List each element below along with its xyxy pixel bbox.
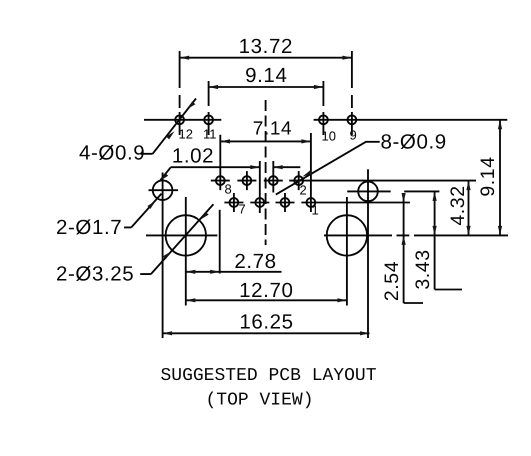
arrow dim 9.14 right top [498, 120, 502, 130]
svg-text:2.54: 2.54 [381, 261, 403, 301]
leader 8-0.9 line [276, 142, 380, 195]
svg-text:9: 9 [350, 128, 357, 143]
arrow leader 4-0.9 upper [187, 101, 195, 109]
pin 1 [307, 198, 316, 207]
dim 1.02 lines [171, 166, 300, 168]
svg-text:4-Ø0.9: 4-Ø0.9 [79, 141, 145, 164]
svg-text:2-Ø1.7: 2-Ø1.7 [56, 216, 122, 239]
pin 2 [294, 176, 303, 185]
arrow dim 2.54 top outside [402, 193, 406, 203]
arrow dim 2.78 left [186, 270, 196, 274]
arrow dim 2.54 bottom outside [402, 235, 406, 245]
pin 5 crosshair + 1.02 extension [250, 161, 269, 213]
pin 1 crosshair + 2.54 extension + 7.14 extension [301, 133, 410, 212]
leader 2-3.25 lines [140, 204, 213, 274]
dim 2.78 line [186, 271, 282, 273]
arrow dim 9.14 top left [209, 85, 219, 89]
hole 11 [204, 115, 213, 124]
arrow leader 4-0.9 lower [166, 131, 174, 139]
2.78 extension line [219, 210, 221, 274]
svg-text:2: 2 [300, 183, 307, 198]
arrow dim 2.78 right [210, 270, 220, 274]
hole 9 [348, 115, 357, 124]
dim 16.25 line [163, 332, 370, 334]
hole 2-3.25 left [166, 215, 206, 255]
svg-text:11: 11 [203, 127, 217, 142]
arrow dim 9.14 right bottom [498, 226, 502, 236]
arrow dim 13.72 right [342, 56, 352, 60]
arrow dim 1.02 left [250, 165, 259, 169]
hole 10 [319, 115, 328, 124]
svg-text:16.25: 16.25 [239, 311, 293, 334]
center axis dashed [265, 100, 267, 245]
arrow dim 3.43 bottom [433, 226, 437, 236]
pin 3 crosshair [276, 193, 295, 212]
pin 7 crosshair [224, 193, 243, 212]
svg-text:2-Ø3.25: 2-Ø3.25 [56, 263, 134, 286]
leader 2-1.7 lines [124, 167, 171, 227]
arrow leader 2-3.25 lower [163, 251, 171, 259]
dim 2.54 line with tail and landing [404, 195, 423, 304]
hole 2-1.7 right [358, 182, 378, 202]
svg-text:9.14: 9.14 [477, 156, 499, 196]
pin 8 crosshair [211, 135, 230, 190]
pin 8 [216, 176, 225, 185]
svg-text:8: 8 [225, 181, 232, 196]
svg-text:7.14: 7.14 [253, 119, 292, 140]
hole 2-1.7 left crosshair [149, 173, 179, 339]
hole 2-3.25 left crosshair [146, 197, 217, 306]
hole 11 vertical line [208, 81, 210, 135]
dim 3.43 line with tail and landing [435, 191, 462, 289]
hole 2-3.25 right crosshair [324, 197, 392, 306]
pin 6 crosshair [237, 171, 256, 190]
arrow leader 8-0.9 [303, 170, 313, 176]
hole 10 vertical line [322, 81, 324, 135]
dim 9.14 right line [499, 120, 501, 236]
svg-text:7: 7 [239, 201, 246, 216]
arrow leader 2-1.7 lower [147, 201, 155, 209]
arrow dim 16.25 right [360, 331, 370, 335]
arrow dim 9.14 top right [314, 85, 324, 89]
arrow dim 13.72 left [180, 56, 190, 60]
arrow dim 7.14 right [301, 139, 311, 143]
svg-text:(TOP VIEW): (TOP VIEW) [205, 391, 313, 411]
dim 9.14 top line [209, 86, 324, 88]
hole 2-1.7 left [153, 180, 173, 200]
3.43 extension line [404, 190, 439, 192]
arrow dim 7.14 left [221, 139, 231, 143]
pin 4 crosshair [264, 161, 283, 193]
dim 4.32 line [468, 181, 470, 236]
hole 12 [175, 115, 184, 124]
arrow dim 4.32 bottom [466, 226, 470, 236]
arrow dim 12.70 left [186, 298, 196, 302]
pin 7 [230, 198, 239, 207]
hole 2-1.7 right crosshair [347, 169, 391, 338]
hole 2-3.25 right [327, 215, 367, 255]
arrow leader 2-1.7 upper [160, 173, 168, 181]
hole 12 vertical line [179, 51, 181, 135]
top hole row centerline left [144, 119, 221, 121]
arrow dim 1.02 right [273, 165, 283, 169]
svg-text:2.78: 2.78 [234, 250, 276, 273]
svg-text:3.43: 3.43 [412, 249, 434, 289]
svg-text:4.32: 4.32 [447, 185, 469, 225]
svg-text:12.70: 12.70 [239, 279, 293, 302]
big hole baseline right dashes [397, 234, 509, 236]
arrow leader 2-3.25 upper [200, 212, 208, 220]
arrow dim 12.70 right [337, 298, 347, 302]
arrow dim 4.32 top [466, 181, 470, 191]
svg-text:13.72: 13.72 [239, 35, 293, 58]
dim 7.14 line [221, 140, 311, 142]
pin 6 [243, 176, 252, 185]
hole 9 vertical line [351, 51, 353, 135]
svg-text:1: 1 [312, 203, 319, 218]
arrow dim 16.25 left [163, 331, 173, 335]
svg-text:8-Ø0.9: 8-Ø0.9 [381, 131, 447, 154]
pin 4 [269, 176, 278, 185]
svg-text:12: 12 [179, 126, 193, 141]
dim 13.72 line [180, 57, 352, 59]
svg-text:9.14: 9.14 [245, 64, 287, 87]
leader 4-0.9 lines [141, 99, 197, 154]
dim 12.70 line [186, 299, 347, 301]
pin 5 [255, 198, 264, 207]
svg-text:1.02: 1.02 [172, 145, 214, 168]
svg-text:10: 10 [322, 128, 336, 143]
svg-text:SUGGESTED PCB LAYOUT: SUGGESTED PCB LAYOUT [160, 366, 376, 386]
pin 3 [281, 198, 290, 207]
pin 2 crosshair + 4.32 extension [289, 171, 476, 190]
arrow dim 3.43 top [433, 191, 437, 201]
top hole row centerline right (9.14 top extension) [314, 119, 508, 121]
